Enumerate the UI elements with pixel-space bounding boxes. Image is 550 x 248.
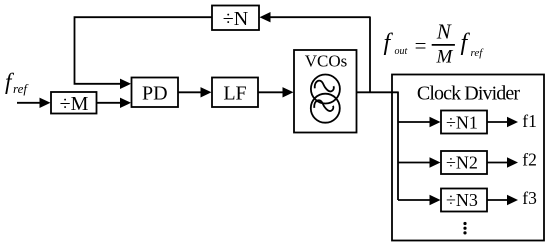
svg-text:N: N (436, 19, 452, 43)
svg-text:÷N: ÷N (223, 8, 248, 30)
svg-text:f2: f2 (522, 150, 537, 170)
svg-text:f1: f1 (522, 111, 537, 131)
svg-text:out: out (395, 46, 408, 57)
svg-text:M: M (435, 47, 453, 68)
svg-text:÷M: ÷M (60, 93, 89, 115)
svg-text:LF: LF (223, 83, 246, 105)
svg-text:÷N1: ÷N1 (446, 112, 478, 132)
svg-text:PD: PD (142, 83, 168, 105)
svg-text:VCOs: VCOs (305, 52, 348, 71)
svg-text:ref: ref (13, 81, 29, 96)
svg-text:f3: f3 (522, 188, 537, 208)
svg-text:Clock Divider: Clock Divider (417, 83, 520, 105)
svg-text:=: = (415, 33, 427, 57)
svg-text:÷N2: ÷N2 (446, 153, 478, 173)
svg-text:ref: ref (471, 47, 485, 59)
svg-text:÷N3: ÷N3 (446, 190, 478, 210)
